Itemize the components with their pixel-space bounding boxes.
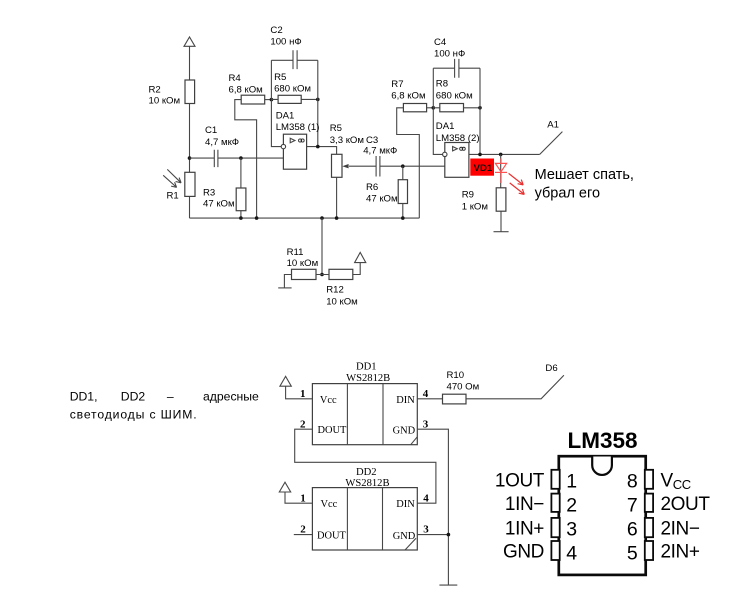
wire feedback left vertical to inverting input: [271, 60, 281, 146]
pin 7 box: [645, 494, 653, 512]
svg-text:10 кОм: 10 кОм: [326, 297, 358, 308]
wire R3 drop: [240, 158, 242, 188]
svg-text:4,7 мкФ: 4,7 мкФ: [205, 137, 239, 148]
wire R2 to R1: [189, 104, 191, 173]
op-amp U1 DA1 LM358(1): [276, 110, 320, 169]
node R8 right: [478, 106, 482, 110]
capacitor C3: [363, 135, 397, 176]
ground at DD bus bottom: [439, 584, 457, 586]
wiper arrow: [349, 165, 376, 167]
wire rail right end up to R7 left routing: [397, 108, 420, 218]
resistor R4: [229, 73, 265, 104]
power symbol +U at R12: [355, 252, 366, 262]
svg-text:2: 2: [300, 418, 306, 430]
pin 8 box: [645, 470, 653, 489]
svg-text:DIN: DIN: [396, 499, 415, 510]
svg-text:Мешает спать,: Мешает спать,: [535, 167, 634, 183]
notch: [592, 457, 612, 475]
potentiometer R5 3.3k: [330, 123, 376, 177]
resistor R10: [443, 370, 480, 404]
svg-text:C4: C4: [434, 37, 447, 48]
wire DD2 pin1 Vcc: [285, 492, 312, 503]
svg-text:7: 7: [627, 494, 638, 516]
pin 1 box: [551, 470, 559, 489]
svg-text:4: 4: [423, 492, 429, 504]
node divider junction: [320, 273, 324, 277]
svg-text:470 Ом: 470 Ом: [447, 381, 480, 392]
svg-text:R2: R2: [149, 85, 161, 96]
wire rail drop to divider: [321, 218, 323, 274]
power symbol at DD1 pin1: [280, 376, 291, 386]
svg-text:GND: GND: [503, 542, 544, 563]
text note removed LED: [535, 167, 634, 201]
svg-text:VCC: VCC: [661, 470, 691, 492]
resistor R9: [462, 188, 506, 213]
resistor R5 680k: [271, 72, 317, 103]
svg-text:адресные: адресные: [203, 389, 259, 403]
svg-text:1: 1: [566, 471, 577, 493]
svg-text:2IN+: 2IN+: [661, 542, 700, 563]
svg-text:R1: R1: [167, 191, 179, 202]
capacitor C2: [270, 25, 317, 69]
svg-text:DD2: DD2: [356, 467, 377, 478]
diode VD1 symbol: [495, 159, 524, 195]
svg-text:10 кОм: 10 кОм: [287, 258, 319, 269]
svg-text:4,7 мкФ: 4,7 мкФ: [363, 145, 397, 156]
wire R3 bottom to rail: [240, 211, 242, 218]
svg-text:GND: GND: [393, 426, 416, 437]
svg-text:2: 2: [300, 524, 306, 536]
wire R10 to D6 diagonal: [466, 375, 564, 399]
resistor R2: [149, 80, 195, 106]
svg-text:R10: R10: [447, 370, 465, 381]
wire R9 to ground: [500, 211, 502, 232]
ground below R9: [494, 231, 509, 233]
svg-text:VD1: VD1: [474, 163, 493, 174]
svg-text:светодиоды с ШИМ.: светодиоды с ШИМ.: [70, 407, 198, 421]
resistor R7: [391, 79, 426, 112]
svg-text:R5: R5: [330, 123, 342, 134]
svg-text:WS2812B: WS2812B: [345, 478, 389, 489]
wire DD2 pin2 DOUT stub: [294, 534, 313, 536]
svg-text:3: 3: [423, 524, 429, 536]
pin 4 box: [551, 541, 559, 560]
svg-text:R4: R4: [229, 73, 242, 84]
wire DD1 pin4 DIN to R10: [417, 398, 442, 400]
svg-text:C2: C2: [270, 25, 282, 36]
power symbol +U top-left: [184, 37, 195, 80]
svg-text:47 кОм: 47 кОм: [366, 193, 398, 204]
node R4/R5 junction: [270, 98, 274, 102]
svg-text:R7: R7: [391, 79, 403, 90]
node R3 top: [239, 156, 243, 160]
wire R6 drop: [402, 166, 404, 180]
svg-text:2OUT: 2OUT: [661, 494, 711, 515]
svg-text:1IN+: 1IN+: [505, 519, 544, 540]
resistor R1 photoresistor: [163, 169, 195, 201]
svg-text:6,8 кОм: 6,8 кОм: [391, 90, 425, 101]
svg-text:47 кОм: 47 кОм: [203, 199, 235, 210]
wire pot bottom to rail: [336, 177, 338, 218]
svg-text:3: 3: [423, 418, 429, 430]
light arrow 1: [167, 169, 181, 182]
resistor R6: [366, 180, 408, 205]
svg-text:убрал его: убрал его: [535, 185, 600, 201]
pin 2 box: [551, 494, 559, 512]
svg-text:100 нФ: 100 нФ: [434, 48, 465, 59]
svg-text:6: 6: [627, 519, 638, 541]
node LED branch: [499, 153, 503, 157]
node output U2: [478, 153, 482, 157]
wire R7 right to junction: [427, 107, 434, 109]
svg-text:–: –: [167, 389, 174, 403]
svg-text:DOUT: DOUT: [317, 531, 347, 542]
svg-text:A1: A1: [547, 120, 559, 131]
light arrow 2: [163, 175, 176, 187]
svg-text:D6: D6: [545, 363, 557, 374]
svg-text:4: 4: [566, 542, 577, 564]
wire C1 to op-amp input: [218, 157, 284, 159]
svg-text:3,3 кОм: 3,3 кОм: [330, 135, 364, 146]
text paragraph DD1 DD2 note: [70, 389, 259, 421]
wire R6 bottom to rail: [402, 204, 404, 219]
svg-text:6,8 кОм: 6,8 кОм: [229, 84, 263, 95]
svg-text:LM358 (1): LM358 (1): [276, 122, 320, 133]
svg-text:DA1: DA1: [276, 110, 295, 121]
svg-text:1OUT: 1OUT: [495, 470, 545, 491]
node GND bus junction: [447, 533, 451, 537]
LED VD1 highlighted label: [470, 159, 494, 176]
IC body DIP-8: [559, 456, 646, 575]
svg-text:DA1: DA1: [436, 121, 455, 132]
svg-text:R3: R3: [203, 188, 215, 199]
node R5 right: [316, 98, 320, 102]
light emission arrow 2: [510, 183, 525, 195]
svg-text:R12: R12: [326, 285, 344, 296]
capacitor C1: [205, 125, 239, 167]
svg-text:2IN−: 2IN−: [661, 519, 700, 540]
wire C3 to op-amp2 input: [380, 165, 445, 167]
wire feedback2 right vertical: [479, 68, 481, 154]
wire feedback2 left vertical to inverting input: [433, 68, 442, 154]
power symbol at DD2 pin1: [279, 482, 290, 492]
svg-text:LM358 (2): LM358 (2): [436, 133, 480, 144]
wire R1 bottom to rail: [189, 197, 191, 218]
svg-text:R8: R8: [436, 79, 448, 90]
svg-text:R9: R9: [462, 190, 474, 201]
svg-text:1 кОм: 1 кОм: [462, 201, 488, 212]
pin 6 box: [645, 518, 653, 537]
svg-text:5: 5: [627, 542, 638, 564]
capacitor C4: [433, 37, 480, 78]
svg-text:R6: R6: [366, 182, 378, 193]
resistor R3: [203, 188, 246, 211]
svg-text:Vcc: Vcc: [320, 395, 337, 406]
svg-text:DOUT: DOUT: [318, 425, 348, 436]
svg-text:DIN: DIN: [396, 395, 415, 406]
light emission arrow 1: [509, 173, 524, 185]
wire op-amp1 output: [307, 147, 337, 155]
svg-text:680 кОм: 680 кОм: [436, 90, 473, 101]
svg-text:R5: R5: [274, 72, 286, 83]
svg-text:2: 2: [566, 494, 577, 516]
svg-text:680 кОм: 680 кОм: [274, 83, 311, 94]
svg-text:LM358: LM358: [568, 428, 638, 453]
IC DD2 WS2812B: [312, 467, 417, 550]
svg-text:C1: C1: [205, 125, 217, 136]
IC DD1 WS2812B: [312, 362, 417, 445]
node output U1: [316, 145, 320, 149]
wire main signal line: [190, 157, 215, 159]
wire: [189, 46, 191, 80]
wire feedback right vertical: [317, 60, 319, 146]
wire DD1 pin2 DOUT to DD2 pin4 DIN: [295, 429, 436, 503]
wire R4 left lead routing to rail: [235, 100, 257, 219]
svg-text:8: 8: [627, 471, 638, 493]
svg-text:4: 4: [423, 388, 429, 400]
svg-text:R11: R11: [287, 247, 304, 258]
wire R4 right to junction: [265, 99, 272, 101]
wire LED drop: [500, 154, 502, 187]
svg-text:3: 3: [566, 519, 577, 541]
pin 3 box: [551, 518, 559, 537]
svg-text:DD2: DD2: [121, 389, 146, 403]
node junction main line left: [188, 156, 192, 160]
wire bias rail: [190, 217, 420, 219]
svg-text:WS2812B: WS2812B: [346, 373, 390, 384]
svg-text:DD1: DD1: [356, 362, 377, 373]
wire op-amp2 output to switch: [469, 153, 540, 155]
wire switch diagonal to A1: [540, 132, 563, 155]
svg-text:DD1,: DD1,: [70, 389, 98, 403]
resistor R11: [284, 247, 322, 288]
svg-text:10 кОм: 10 кОм: [149, 95, 181, 106]
resistor R12: [322, 263, 360, 308]
node R6 top: [401, 164, 405, 168]
pin 5 box: [645, 541, 653, 560]
op-amp U2 DA1 LM358(2): [436, 121, 480, 177]
svg-text:100 нФ: 100 нФ: [270, 36, 301, 47]
wire DD1 pin1 Vcc: [286, 386, 313, 399]
node rail junctions: [239, 216, 243, 220]
resistor R8: [433, 79, 480, 112]
wire DD2 pin3 GND: [417, 534, 448, 536]
ground below R11: [278, 287, 291, 289]
svg-text:1: 1: [300, 492, 306, 504]
svg-text:GND: GND: [393, 531, 416, 542]
node R7/R8 junction: [432, 106, 436, 110]
svg-text:1: 1: [300, 388, 306, 400]
wire DD1 pin3 GND down: [417, 429, 448, 585]
svg-text:1IN−: 1IN−: [505, 494, 544, 515]
svg-text:Vcc: Vcc: [321, 499, 338, 510]
